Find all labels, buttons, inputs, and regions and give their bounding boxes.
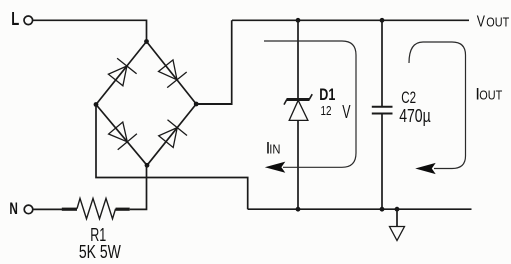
wire bridge side top-left	[96, 42, 147, 105]
svg-text:V: V	[342, 102, 350, 122]
wire bridge side top-right	[147, 42, 197, 105]
wire bridge right to top rail	[196, 103, 232, 105]
node bridge left	[94, 102, 99, 107]
wire bridge side bottom-left	[96, 105, 147, 166]
wire bridge left to bottom rail	[96, 105, 248, 210]
terminal L circle	[24, 16, 33, 25]
diode bridge top-right	[159, 60, 187, 88]
svg-text:5K 5W: 5K 5W	[79, 242, 121, 262]
resistor R1	[62, 198, 130, 218]
wire R1 to bridge bottom	[130, 165, 147, 209]
diode bridge top-left	[108, 58, 136, 86]
wire C2 bottom	[381, 114, 383, 210]
wire bridge side bottom-right	[147, 104, 196, 165]
wire D1 top	[297, 20, 299, 98]
node C2 bottom	[380, 207, 385, 212]
diode bridge bottom-left	[109, 122, 137, 150]
wire bottom rail	[248, 208, 472, 210]
node D1 bottom	[296, 207, 301, 212]
wire ground tap	[396, 209, 398, 226]
node bridge bottom	[145, 163, 150, 168]
node ground tap	[395, 207, 400, 212]
svg-text:12: 12	[321, 103, 332, 118]
svg-text:470µ: 470µ	[399, 106, 431, 126]
svg-text:D1: D1	[319, 85, 335, 104]
current loop IOUT	[409, 42, 466, 169]
label IIN	[266, 139, 281, 158]
svg-text:OUT: OUT	[486, 15, 509, 30]
svg-text:IN: IN	[269, 142, 280, 157]
arrow IIN	[265, 162, 286, 173]
node bridge right	[194, 102, 199, 107]
current loop IIN	[264, 41, 356, 167]
capacitor C2	[372, 107, 393, 114]
svg-text:C2: C2	[401, 88, 416, 107]
svg-text:OUT: OUT	[479, 87, 502, 102]
arrow IOUT	[415, 163, 436, 174]
svg-text:N: N	[9, 199, 18, 218]
zener diode D1	[284, 94, 312, 120]
wire D1 bottom	[297, 120, 299, 209]
label IOUT	[475, 84, 502, 103]
wire top rail to VOUT	[232, 19, 469, 21]
node bridge top	[144, 39, 149, 44]
diode bridge bottom-right	[159, 120, 187, 148]
wire L to bridge top	[33, 20, 147, 41]
wire C2 top	[381, 20, 383, 106]
terminal N circle	[24, 205, 33, 214]
svg-text:V: V	[477, 14, 485, 31]
label D1 value	[321, 102, 351, 122]
wire N to R1	[33, 208, 62, 210]
ground	[390, 227, 405, 241]
label VOUT	[477, 14, 510, 31]
node D1 top	[296, 18, 301, 23]
svg-text:L: L	[11, 8, 19, 29]
node C2 top	[380, 18, 385, 23]
